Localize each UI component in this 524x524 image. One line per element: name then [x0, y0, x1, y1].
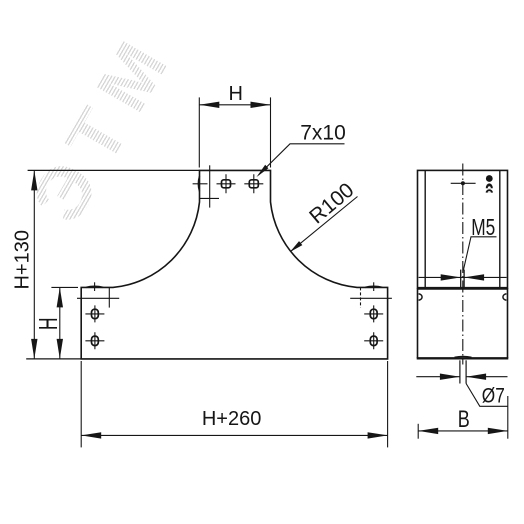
- svg-text:H: H: [228, 83, 242, 105]
- svg-text:M5: M5: [471, 214, 495, 240]
- svg-text:B: B: [458, 406, 470, 433]
- svg-text:R100: R100: [305, 179, 358, 229]
- svg-text:Ø7: Ø7: [482, 384, 505, 408]
- svg-text:H+130: H+130: [12, 230, 34, 290]
- svg-text:7x10: 7x10: [300, 122, 346, 145]
- svg-text:H+260: H+260: [202, 408, 262, 430]
- svg-text:H: H: [35, 318, 63, 331]
